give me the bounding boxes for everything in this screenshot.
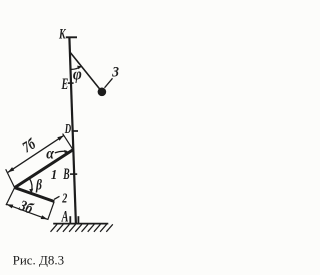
svg-text:3: 3 — [111, 64, 119, 81]
svg-text:E: E — [61, 75, 69, 93]
dimension line 3b — [7, 204, 48, 219]
witness tick 7b lower (through joint) — [6, 169, 15, 187]
svg-text:α: α — [46, 146, 55, 163]
svg-text:2: 2 — [61, 190, 67, 206]
tick at B — [70, 173, 77, 175]
arrowhead 7b upper — [57, 135, 64, 140]
svg-text:β: β — [35, 176, 42, 193]
leader line to label 3 — [105, 78, 113, 88]
witness tick 3b right (through rod2 end) — [48, 202, 55, 220]
ground line — [53, 223, 108, 225]
svg-text:1: 1 — [51, 166, 57, 182]
bearing tick right — [77, 216, 79, 223]
svg-text:D: D — [64, 122, 71, 136]
angle phi arc — [71, 66, 81, 69]
top cap tick at K — [66, 36, 77, 38]
angle beta arc — [29, 178, 32, 193]
rod 1 — [15, 150, 73, 188]
arrowhead of phi arc — [77, 66, 82, 70]
svg-text:φ: φ — [73, 66, 82, 84]
rod 2 — [15, 188, 55, 202]
arrowhead of beta arc — [29, 189, 33, 194]
svg-text:A: A — [61, 207, 69, 225]
svg-text:K: K — [58, 25, 66, 41]
shaft AK (vertical rod) — [69, 38, 76, 224]
svg-text:Рис. Д8.3: Рис. Д8.3 — [13, 253, 65, 268]
ground hatching — [51, 224, 113, 232]
arrowhead 3b left — [7, 204, 14, 208]
ball 3 — [98, 88, 107, 97]
arrowhead 3b right — [41, 215, 48, 219]
bearing tick left — [69, 216, 71, 223]
witness tick 7b upper (through rod1 top) — [63, 134, 73, 150]
dimension line 7b — [8, 135, 64, 172]
leader line to label 2 — [54, 196, 60, 199]
angle alpha leader — [55, 151, 67, 153]
svg-text:B: B — [63, 166, 70, 183]
tick at E — [68, 82, 74, 84]
arrowhead 7b lower — [8, 167, 15, 172]
arrowhead of alpha leader — [64, 150, 68, 153]
witness tick 3b left (through joint) — [6, 188, 15, 206]
pendulum thread from shaft to ball 3 — [70, 52, 102, 92]
tick at D — [72, 130, 78, 132]
